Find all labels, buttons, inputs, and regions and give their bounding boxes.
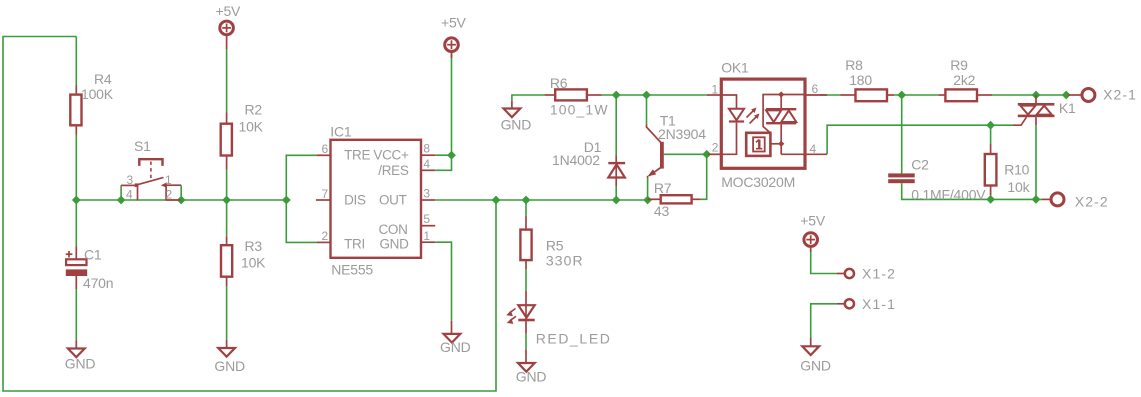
resistor R8 — [841, 89, 895, 101]
resistor R9 — [938, 89, 992, 101]
svg-text:GND: GND — [501, 117, 532, 133]
wire R4 top — [75, 37, 77, 86]
svg-text:10K: 10K — [241, 255, 266, 271]
svg-text:MOC3020M: MOC3020M — [721, 174, 795, 190]
svg-text:3: 3 — [127, 173, 134, 187]
wire R6 left to GND corner — [512, 95, 545, 101]
node R4/C1 junction — [72, 196, 81, 205]
resistor R2 — [221, 113, 232, 170]
wire R8 to R9 — [894, 94, 938, 96]
wire R6 right top row — [602, 94, 708, 96]
resistor R3 — [221, 236, 232, 286]
wire D1 top — [615, 95, 617, 155]
svg-text:4: 4 — [810, 142, 817, 156]
capacitor C2 — [888, 173, 915, 183]
wire gate row — [991, 124, 1013, 126]
svg-text:2: 2 — [166, 188, 173, 202]
svg-text:GND: GND — [65, 356, 96, 372]
svg-text:X2-1: X2-1 — [1103, 87, 1137, 103]
svg-text:S1: S1 — [134, 138, 151, 154]
svg-text:GND: GND — [214, 358, 245, 374]
wire X1-1 to GND — [811, 304, 837, 338]
svg-text:4: 4 — [423, 157, 430, 171]
node pin8/pin4 +5V junction — [447, 151, 456, 160]
capacitor C1 — [66, 247, 88, 290]
wire T1 base to OK1 pin2 — [664, 153, 708, 155]
svg-text:43: 43 — [654, 203, 670, 219]
svg-text:R9: R9 — [950, 57, 968, 73]
svg-text:10K: 10K — [239, 119, 264, 135]
wire R5 to LED — [525, 269, 527, 291]
connector X2-2 — [1042, 193, 1064, 206]
svg-text:1: 1 — [712, 82, 719, 96]
wire +5V to pin8 node — [451, 53, 453, 156]
svg-text:1N4002: 1N4002 — [552, 152, 600, 168]
svg-text:100K: 100K — [81, 86, 114, 102]
resistor R10 — [985, 144, 997, 195]
op-amp / optocoupler OK1 box — [707, 79, 827, 168]
node TRE/TRI junction — [282, 196, 291, 205]
svg-text:R4: R4 — [94, 71, 112, 87]
wire C2 bottom row to X2-2 — [902, 183, 1042, 199]
wire R10 bottom — [990, 195, 992, 199]
resistor R5 — [520, 216, 531, 269]
wire T1 collector — [646, 95, 648, 124]
resistor R7 — [648, 195, 700, 203]
svg-text:X2-2: X2-2 — [1075, 194, 1109, 210]
svg-text:K1: K1 — [1059, 100, 1076, 116]
svg-text:VCC+: VCC+ — [373, 148, 409, 163]
svg-text:470n: 470n — [83, 275, 113, 291]
supply +5V (R2) — [220, 21, 234, 49]
wire K1 MT1 down to X2-2 row — [1035, 125, 1037, 199]
wire OUT row y=200 — [435, 199, 647, 201]
svg-text:R6: R6 — [550, 75, 568, 91]
connector X1-2 — [837, 269, 854, 278]
node D1 bottom junction — [612, 196, 621, 205]
svg-text:6: 6 — [322, 142, 329, 156]
svg-text:C1: C1 — [84, 247, 102, 263]
node R5 junction — [522, 196, 531, 205]
ground C1 GND — [68, 340, 85, 357]
svg-text:100_1W: 100_1W — [550, 101, 609, 117]
wire pin1 to GND — [435, 242, 451, 321]
switch S1 — [121, 159, 181, 200]
svg-text:GND: GND — [379, 237, 409, 252]
svg-text:GND: GND — [440, 339, 471, 355]
wire R7 right vertical — [700, 154, 707, 199]
svg-text:R10: R10 — [1004, 162, 1029, 178]
svg-text:R5: R5 — [546, 238, 564, 254]
svg-text:4: 4 — [126, 188, 133, 202]
OK1 internal triac — [746, 91, 805, 156]
wire +5V to X1-2 — [811, 252, 837, 274]
node K1 MT2 junction — [1032, 91, 1041, 100]
OK1 chip number 1 — [756, 140, 762, 149]
wire R3 bottom to GND — [226, 286, 228, 340]
op-amp / IC1 NE555 box — [316, 140, 435, 258]
svg-text:X1-1: X1-1 — [862, 296, 896, 312]
svg-text:+5V: +5V — [216, 3, 242, 19]
resistor R4 — [70, 86, 81, 135]
svg-text:3: 3 — [423, 187, 430, 201]
diode D1 — [608, 155, 625, 186]
connector X1-1 — [837, 299, 854, 308]
diode RED_LED — [506, 291, 535, 334]
node S1 pin2 junction — [177, 196, 186, 205]
svg-text:10k: 10k — [1007, 179, 1030, 195]
svg-text:180: 180 — [849, 72, 872, 88]
wire R9 right to X2-1 — [992, 94, 1068, 96]
node C2 top junction — [897, 91, 906, 100]
wire pin8 — [435, 154, 451, 156]
transistor T1 — [647, 124, 664, 178]
supply +5V (IC1) — [445, 38, 459, 58]
node R10 bottom junction — [986, 195, 995, 204]
svg-text:8: 8 — [423, 142, 430, 156]
node R10 top junction — [986, 121, 995, 130]
wire T1 emitter lower — [647, 178, 649, 200]
svg-text:R3: R3 — [245, 238, 263, 254]
svg-text:TRI: TRI — [344, 237, 365, 252]
svg-text:2: 2 — [322, 229, 329, 243]
svg-text:R2: R2 — [245, 102, 263, 118]
svg-text:CON: CON — [378, 222, 407, 237]
supply +5V (X1) — [804, 233, 818, 252]
wire C2 top — [901, 95, 903, 173]
wire R3 top — [226, 200, 228, 236]
wire pin4 — [435, 155, 451, 170]
wire +5V to R2 — [226, 49, 228, 113]
svg-text:6: 6 — [812, 82, 819, 96]
svg-text:GND: GND — [800, 358, 831, 374]
svg-text:NE555: NE555 — [331, 262, 373, 278]
svg-text:+5V: +5V — [800, 213, 826, 229]
svg-text:TRE: TRE — [344, 148, 370, 163]
svg-text:RED_LED: RED_LED — [536, 330, 612, 346]
wire OK1 pin6 to R8 — [820, 94, 841, 96]
wire main horizontal node row y=200 — [76, 199, 286, 201]
resistor R6 — [545, 89, 602, 100]
svg-text:X1-2: X1-2 — [862, 266, 896, 282]
ground R6 GND — [504, 101, 521, 117]
wire TRE pin6 — [286, 155, 316, 242]
svg-text:IC1: IC1 — [330, 124, 352, 140]
node T1 collector junction — [642, 91, 651, 100]
svg-text:+5V: +5V — [441, 15, 467, 31]
triac K1 — [1013, 95, 1054, 125]
svg-text:2: 2 — [712, 141, 719, 155]
ground X1 GND — [802, 338, 819, 355]
wire C1 top — [75, 200, 77, 247]
PARTS_START — [66, 21, 1095, 372]
svg-text:/RES: /RES — [378, 163, 409, 178]
ground RED_LED GND — [518, 349, 535, 371]
node D1 top junction — [612, 91, 621, 100]
wire D1 bottom — [615, 186, 617, 200]
wire R10 top — [990, 125, 992, 144]
svg-text:5: 5 — [423, 212, 430, 226]
wire OK1 pin4 row to R10/gate — [827, 125, 991, 154]
OK1 internal LED — [721, 95, 759, 154]
ground R3 GND — [218, 340, 235, 357]
svg-text:R8: R8 — [845, 57, 863, 73]
wire S1 pin2 leg — [180, 185, 182, 200]
node T1 base/OK1 pin2 junction — [702, 150, 711, 159]
node S1 pin4 junction — [117, 196, 126, 205]
wire R2 bottom — [226, 170, 228, 200]
wire R4 bottom to main node — [75, 135, 77, 201]
svg-text:DIS: DIS — [344, 192, 366, 207]
ground IC1 GND — [444, 321, 461, 343]
wire R5 top — [525, 200, 527, 216]
wire big feedback loop (left/bottom/right of OUT) — [3, 37, 496, 392]
node loop junction — [492, 196, 501, 205]
node T1 emitter/R7 junction — [643, 196, 652, 205]
node K1 MT1 bottom junction — [1032, 195, 1041, 204]
svg-text:2k2: 2k2 — [953, 72, 975, 88]
node X2-1 pin junction — [1062, 91, 1071, 100]
svg-text:7: 7 — [322, 187, 329, 201]
svg-text:0.1MF/400V: 0.1MF/400V — [911, 187, 986, 203]
node R2/R3 junction — [222, 196, 231, 205]
svg-text:2N3904: 2N3904 — [658, 126, 706, 142]
wire C1 bottom to GND — [75, 289, 77, 340]
svg-text:OK1: OK1 — [721, 60, 749, 76]
svg-text:330R: 330R — [546, 253, 584, 269]
svg-text:C2: C2 — [911, 157, 929, 173]
svg-text:R7: R7 — [654, 180, 672, 196]
svg-text:GND: GND — [516, 369, 547, 385]
wire LED to GND — [525, 334, 527, 350]
svg-text:OUT: OUT — [379, 192, 407, 207]
svg-text:1: 1 — [423, 229, 430, 243]
svg-text:1: 1 — [165, 173, 172, 187]
wire S1 pin4 leg — [120, 185, 122, 200]
connector X2-1 — [1068, 89, 1095, 102]
